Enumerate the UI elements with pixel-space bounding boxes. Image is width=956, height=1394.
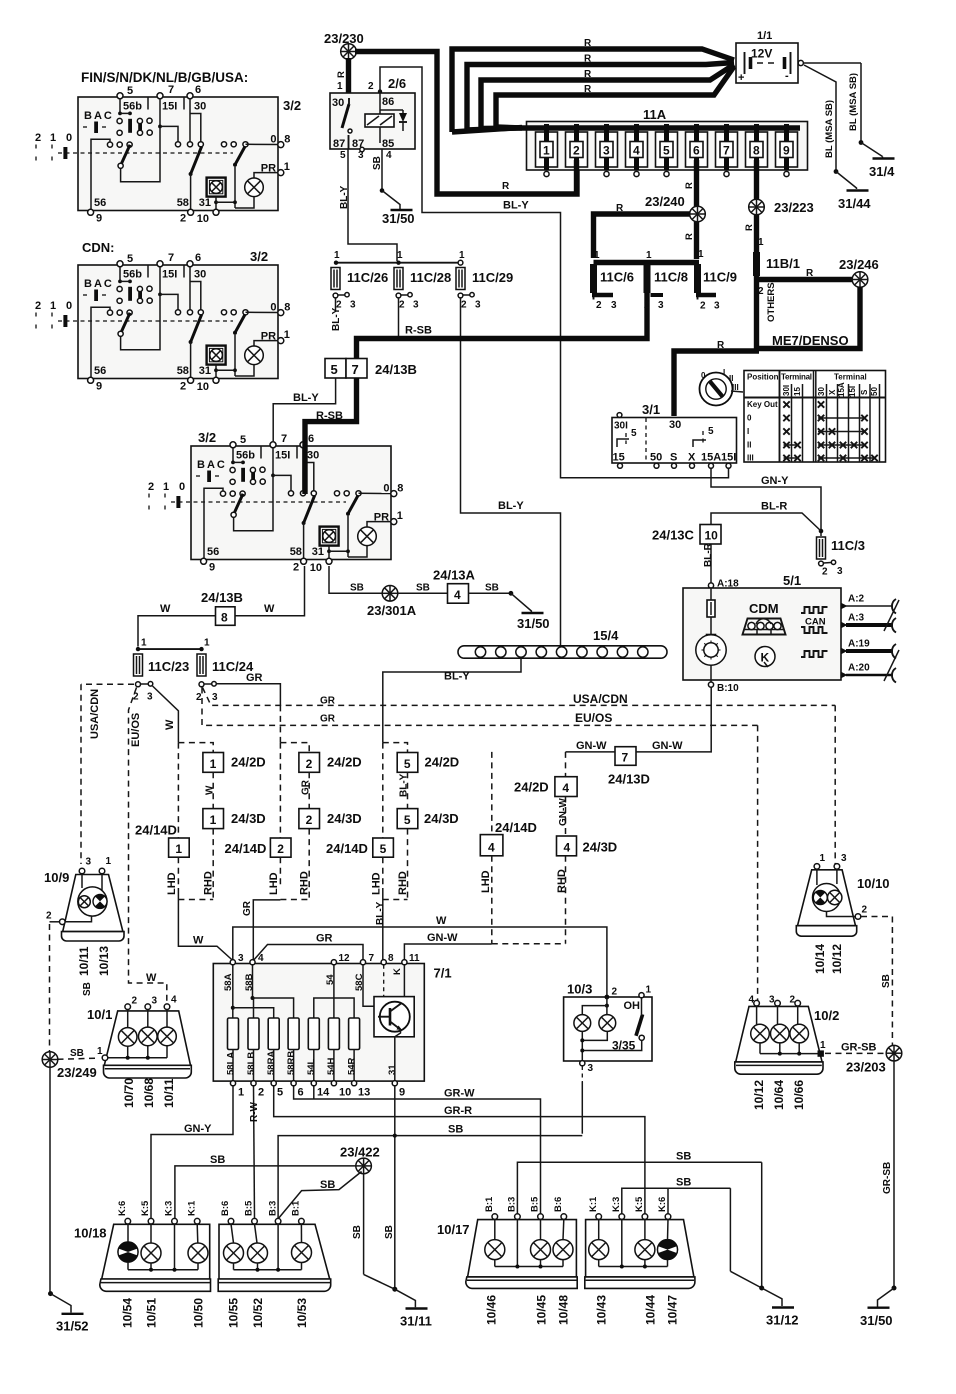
- svg-text:54H: 54H: [326, 1057, 337, 1075]
- svg-text:GN-Y: GN-Y: [761, 475, 789, 487]
- svg-text:23/249: 23/249: [57, 1065, 97, 1080]
- svg-text:R: R: [684, 233, 695, 240]
- svg-text:R: R: [616, 203, 624, 214]
- connector 11C/28: [394, 268, 403, 290]
- svg-text:58B: 58B: [244, 973, 255, 991]
- svg-text:23/422: 23/422: [340, 1145, 380, 1160]
- svg-text:11C/6: 11C/6: [600, 270, 634, 285]
- svg-text:3/2: 3/2: [283, 98, 301, 113]
- wire SB relay 85 to ground: [381, 149, 383, 191]
- connector group 1 (24/2D,24/3D,24/14D): [135, 743, 266, 900]
- headlight switch 3/2 (lower): [148, 430, 403, 574]
- svg-text:10/46: 10/46: [485, 1295, 499, 1325]
- connector 11B/1: [753, 252, 760, 276]
- rail USA/CDN: [203, 688, 836, 706]
- svg-text:GN-Y: GN-Y: [184, 1123, 212, 1135]
- svg-text:15I: 15I: [721, 452, 736, 464]
- svg-text:BL (MSA SB): BL (MSA SB): [824, 100, 835, 158]
- fuse 3: [596, 124, 618, 170]
- svg-text:24/2D: 24/2D: [425, 755, 460, 770]
- connector 24/13B (5|7): [325, 359, 417, 379]
- svg-text:24/2D: 24/2D: [231, 755, 266, 770]
- svg-text:85: 85: [382, 138, 394, 150]
- svg-text:2: 2: [596, 300, 602, 311]
- svg-text:10/64: 10/64: [772, 1080, 786, 1110]
- svg-text:5: 5: [404, 813, 411, 827]
- svg-text:6: 6: [693, 144, 700, 158]
- wire R 11B/1 loop via 23/246 (ME7/DENSO): [754, 276, 759, 350]
- svg-text:24/13A: 24/13A: [433, 568, 476, 583]
- svg-text:7: 7: [723, 144, 730, 158]
- svg-text:30: 30: [332, 97, 344, 109]
- svg-text:2: 2: [790, 995, 796, 1006]
- fuse 7: [716, 124, 738, 170]
- svg-text:3: 3: [152, 996, 158, 1007]
- fuse 1: [536, 124, 558, 170]
- svg-text:10/11: 10/11: [162, 1078, 176, 1108]
- svg-text:CAN: CAN: [805, 617, 826, 628]
- svg-text:2: 2: [700, 301, 706, 312]
- svg-text:10/68: 10/68: [142, 1078, 156, 1108]
- svg-text:3: 3: [769, 995, 775, 1006]
- svg-text:13: 13: [358, 1087, 370, 1099]
- svg-text:4: 4: [488, 841, 495, 855]
- svg-text:K:1: K:1: [588, 1196, 599, 1212]
- svg-text:30: 30: [817, 387, 826, 396]
- connector group 5 (24/2D,24/3D,24/14D): [326, 743, 459, 900]
- wire GN-Y 7/1-1 to 10/18 K:5: [151, 1086, 233, 1219]
- svg-text:1: 1: [210, 813, 217, 827]
- svg-text:1: 1: [698, 249, 704, 260]
- pin-1 thick bus: [594, 260, 700, 265]
- svg-text:5: 5: [277, 1087, 283, 1099]
- USA/CDN left branch to 10/9: [81, 683, 134, 685]
- svg-text:1: 1: [594, 250, 600, 261]
- internal feeds: [232, 965, 234, 1018]
- wire BL-Y relay 86 to ignition 15I: [380, 67, 729, 478]
- svg-text:24/2D: 24/2D: [514, 780, 549, 795]
- svg-text:2: 2: [644, 300, 650, 311]
- connector 24/13A (4): [448, 584, 469, 604]
- svg-text:SB: SB: [82, 982, 93, 996]
- svg-text:12V: 12V: [751, 47, 772, 61]
- ground 31/4: [873, 158, 895, 160]
- svg-text:10/14: 10/14: [813, 944, 827, 974]
- svg-text:3: 3: [714, 301, 720, 312]
- 15/4 strip: [458, 628, 667, 658]
- svg-text:R: R: [584, 69, 592, 80]
- svg-text:2: 2: [277, 842, 284, 856]
- svg-text:31/11: 31/11: [400, 1314, 432, 1329]
- svg-text:B:5: B:5: [244, 1200, 255, 1216]
- svg-text:3: 3: [413, 300, 419, 311]
- svg-text:24/13B: 24/13B: [375, 362, 417, 377]
- svg-text:30: 30: [669, 419, 681, 431]
- svg-text:X: X: [828, 389, 837, 395]
- wire SB 23/422 to ground 31/11: [363, 1174, 365, 1274]
- svg-text:EU/OS: EU/OS: [575, 711, 612, 725]
- group 2 solid GR to 7/1 pin 4: [253, 900, 280, 961]
- svg-text:10/12: 10/12: [752, 1080, 766, 1110]
- svg-text:4: 4: [564, 841, 571, 855]
- svg-text:5/1: 5/1: [783, 573, 801, 588]
- svg-text:LHD: LHD: [166, 872, 178, 895]
- DIM headlamp module icon: [743, 619, 786, 635]
- svg-text:4: 4: [171, 995, 177, 1006]
- svg-text:FIN/S/N/DK/NL/B/GB/USA:: FIN/S/N/DK/NL/B/GB/USA:: [81, 70, 248, 85]
- EU/OS left branch to 10/1: [129, 688, 137, 981]
- svg-text:R: R: [584, 54, 592, 65]
- svg-text:R: R: [584, 84, 592, 95]
- svg-text:K:6: K:6: [117, 1201, 128, 1216]
- wire GN-W 7/1 pin 11: [404, 944, 491, 961]
- svg-text:24/14D: 24/14D: [326, 841, 368, 856]
- fuse 5: [656, 124, 678, 170]
- svg-text:2: 2: [132, 996, 138, 1007]
- svg-text:B:3: B:3: [507, 1197, 518, 1212]
- svg-text:2: 2: [399, 300, 405, 311]
- svg-text:CDN:: CDN:: [82, 240, 115, 255]
- svg-text:11C/26: 11C/26: [347, 270, 388, 285]
- svg-text:4: 4: [633, 144, 640, 158]
- svg-text:3: 3: [588, 1063, 594, 1074]
- svg-text:7: 7: [369, 953, 375, 964]
- wire BL-Y 24/13B-5 to switch terminal 7: [273, 378, 335, 441]
- svg-text:Terminal: Terminal: [781, 373, 812, 382]
- 11C/23 + 11C/24 pin-1 bus: [138, 648, 202, 650]
- splice 23/249: [58, 1058, 95, 1059]
- svg-text:3: 3: [147, 692, 153, 703]
- svg-text:K:3: K:3: [611, 1197, 622, 1212]
- svg-text:III: III: [747, 454, 754, 463]
- svg-text:2: 2: [306, 757, 313, 771]
- wire BL-Y 15/4 to group 5: [383, 659, 521, 743]
- connector 11C/6: [590, 264, 597, 293]
- svg-text:10: 10: [705, 529, 719, 543]
- svg-text:BL-Y: BL-Y: [503, 200, 529, 212]
- svg-text:10/47: 10/47: [666, 1295, 680, 1325]
- ground 31/12: [772, 1307, 794, 1309]
- svg-text:OTHERS: OTHERS: [766, 282, 777, 322]
- svg-text:4: 4: [454, 588, 461, 602]
- svg-text:15A: 15A: [701, 452, 721, 464]
- svg-text:W: W: [436, 915, 447, 927]
- svg-text:2: 2: [573, 144, 580, 158]
- svg-text:R: R: [717, 340, 725, 351]
- svg-text:EU/OS: EU/OS: [130, 713, 142, 747]
- svg-text:4: 4: [386, 150, 392, 161]
- battery minus leads to grounds: [803, 62, 861, 64]
- relay 2/6: [330, 76, 415, 161]
- svg-text:3/35: 3/35: [612, 1039, 636, 1053]
- headlight switch 3/2 (CDN): [35, 240, 290, 393]
- svg-text:10/13: 10/13: [97, 946, 111, 976]
- svg-text:3: 3: [658, 300, 664, 311]
- svg-text:1: 1: [758, 237, 764, 248]
- wire SB 7/1-9 to ground 31/11: [394, 1086, 396, 1289]
- svg-text:10/12: 10/12: [830, 944, 844, 974]
- svg-text:R: R: [806, 268, 814, 279]
- wire harness R loops battery to fuse bus: [452, 49, 734, 132]
- svg-text:1/1: 1/1: [757, 30, 772, 42]
- svg-text:GR: GR: [320, 696, 336, 707]
- svg-text:B:6: B:6: [553, 1197, 564, 1212]
- svg-text:3: 3: [611, 300, 617, 311]
- svg-text:30I: 30I: [782, 385, 791, 396]
- fuse 8: [746, 124, 768, 170]
- wire GR-SB 10/2-1 to 23/203: [825, 1052, 886, 1054]
- connector 11C/3: [817, 537, 826, 559]
- svg-text:10/2: 10/2: [814, 1008, 839, 1023]
- wire GR-R 7/1-5 to 10/17 K:5: [274, 1086, 645, 1214]
- svg-text:B:5: B:5: [530, 1196, 541, 1212]
- svg-text:24/3D: 24/3D: [327, 811, 362, 826]
- svg-text:A:20: A:20: [848, 663, 870, 674]
- svg-text:USA/CDN: USA/CDN: [89, 689, 101, 739]
- svg-text:24/13C: 24/13C: [652, 528, 695, 543]
- wire R thick: 23/230 down to relay 30: [346, 58, 351, 94]
- svg-text:K:1: K:1: [186, 1200, 197, 1216]
- svg-text:8: 8: [388, 953, 394, 964]
- svg-text:11C/28: 11C/28: [410, 270, 451, 285]
- wire SB 10/9-2 to 23/249: [50, 921, 60, 923]
- svg-text:SB: SB: [676, 1177, 691, 1189]
- svg-text:GR-SB: GR-SB: [841, 1042, 877, 1054]
- svg-text:R: R: [502, 181, 510, 192]
- svg-text:1: 1: [543, 144, 550, 158]
- svg-text:1: 1: [646, 985, 652, 996]
- svg-text:2/6: 2/6: [388, 76, 406, 91]
- svg-text:31/50: 31/50: [517, 616, 550, 631]
- svg-text:11C/29: 11C/29: [472, 270, 513, 285]
- svg-text:3: 3: [603, 144, 610, 158]
- svg-text:GR: GR: [246, 672, 263, 684]
- svg-text:SB: SB: [210, 1154, 225, 1166]
- svg-text:CDM: CDM: [749, 601, 779, 616]
- svg-text:31/50: 31/50: [860, 1313, 893, 1328]
- svg-text:24/3D: 24/3D: [424, 811, 459, 826]
- svg-text:11C/9: 11C/9: [703, 270, 737, 285]
- svg-text:23/203: 23/203: [846, 1060, 886, 1075]
- svg-text:RHD: RHD: [203, 871, 215, 895]
- ignition position table: [744, 371, 886, 463]
- svg-text:GN-W: GN-W: [652, 740, 683, 752]
- connector 11C/29: [456, 268, 465, 290]
- splice 23/240: [690, 206, 706, 222]
- svg-text:GR: GR: [320, 714, 336, 725]
- svg-text:3: 3: [837, 566, 843, 577]
- wire SB switch-31 to ground 31/50: [329, 566, 382, 593]
- wire GR 11C/24-3 right: [217, 684, 281, 706]
- wire GR-W 7/1-6 to 10/17 B:5: [294, 1086, 541, 1214]
- fuse box 11A: [522, 107, 808, 170]
- wire W 7/1 pin3 to 10/3 pin 2: [233, 927, 607, 995]
- svg-text:23/223: 23/223: [774, 200, 814, 215]
- connector group 4 (24/2D,24/3D,24/14D): [480, 752, 617, 944]
- svg-text:10/55: 10/55: [227, 1298, 241, 1328]
- svg-text:2: 2: [368, 81, 374, 92]
- svg-text:8: 8: [753, 144, 760, 158]
- svg-text:31/4: 31/4: [869, 164, 895, 179]
- wire W 11C/23-3 to group 1: [153, 686, 179, 743]
- transistor block: [374, 997, 414, 1081]
- svg-text:SB: SB: [372, 156, 383, 170]
- svg-text:5: 5: [708, 426, 714, 437]
- svg-text:58LB: 58LB: [246, 1052, 257, 1075]
- CDM outputs A:2 A:3 A:19 A:20: [842, 594, 900, 683]
- svg-text:K:5: K:5: [634, 1196, 645, 1212]
- svg-text:BL-Y: BL-Y: [375, 901, 386, 925]
- svg-text:BL-Y: BL-Y: [331, 307, 342, 331]
- wire SB 10/17 B:3 to ground 31/12: [517, 1162, 761, 1214]
- svg-text:2: 2: [196, 692, 202, 703]
- svg-text:58RA: 58RA: [266, 1051, 277, 1075]
- svg-text:11C/23: 11C/23: [148, 659, 189, 674]
- svg-text:5: 5: [380, 842, 387, 856]
- connector 11C/23: [134, 654, 143, 676]
- svg-text:1: 1: [646, 250, 652, 261]
- svg-text:24/3D: 24/3D: [583, 840, 618, 855]
- svg-text:R: R: [336, 71, 347, 78]
- ground 31/50 (relay): [391, 209, 413, 211]
- svg-text:4: 4: [749, 995, 755, 1006]
- wire SB 10/18 K:3 to 23/422: [175, 1166, 356, 1219]
- svg-text:58RB: 58RB: [286, 1051, 297, 1075]
- svg-text:10/1: 10/1: [87, 1007, 112, 1022]
- svg-text:GR: GR: [316, 933, 333, 945]
- svg-text:6: 6: [298, 1087, 304, 1099]
- svg-text:58LA: 58LA: [226, 1052, 237, 1075]
- splice 23/301A: [382, 586, 398, 602]
- svg-text:BL-Y: BL-Y: [339, 185, 350, 209]
- svg-text:10/70: 10/70: [122, 1078, 136, 1108]
- svg-text:W: W: [205, 785, 216, 795]
- svg-text:86: 86: [382, 96, 394, 108]
- wire SB 10/17 K:3: [622, 1188, 731, 1214]
- svg-text:3/1: 3/1: [642, 402, 660, 417]
- svg-text:SB: SB: [676, 1151, 691, 1163]
- svg-text:24/2D: 24/2D: [327, 755, 362, 770]
- svg-text:2: 2: [862, 905, 868, 916]
- svg-text:GN-W: GN-W: [427, 932, 458, 944]
- svg-text:B:3: B:3: [267, 1201, 278, 1216]
- ground 31/50 (middle): [522, 612, 544, 614]
- svg-text:SB: SB: [416, 583, 430, 594]
- svg-text:K: K: [392, 968, 403, 975]
- svg-text:1: 1: [337, 81, 343, 92]
- splice 23/422: [356, 1158, 372, 1174]
- ground 31/52: [62, 1313, 84, 1315]
- svg-text:W: W: [193, 935, 204, 947]
- svg-text:R-SB: R-SB: [405, 325, 432, 337]
- svg-text:3: 3: [212, 692, 218, 703]
- svg-text:11B/1: 11B/1: [766, 256, 800, 271]
- svg-text:1: 1: [204, 638, 210, 649]
- wire GN-Y ignition 15A to 11C/3: [711, 469, 821, 537]
- splice 23/223: [749, 199, 765, 215]
- svg-text:3: 3: [238, 953, 244, 964]
- svg-text:9: 9: [783, 144, 790, 158]
- svg-text:1: 1: [397, 250, 403, 261]
- GR solid into rail1: [279, 705, 281, 742]
- svg-text:GR-R: GR-R: [444, 1105, 472, 1117]
- svg-text:BL (MSA SB): BL (MSA SB): [848, 73, 859, 131]
- svg-text:SB: SB: [70, 1048, 84, 1059]
- wire R-SB thick bus: [357, 293, 648, 358]
- wire R fuse 8 down: [754, 160, 759, 252]
- svg-text:1: 1: [820, 1040, 826, 1051]
- svg-text:R: R: [584, 38, 592, 49]
- svg-text:4: 4: [562, 781, 569, 795]
- svg-text:K:3: K:3: [164, 1201, 175, 1216]
- CAN squarewaves: [801, 607, 828, 613]
- fuse 9: [776, 124, 798, 170]
- svg-text:11A: 11A: [643, 107, 667, 122]
- splice 23/230: [341, 44, 357, 60]
- svg-text:2: 2: [461, 300, 467, 311]
- svg-text:0: 0: [747, 414, 752, 423]
- connector 11C/24: [197, 654, 206, 676]
- svg-text:ME7/DENSO: ME7/DENSO: [772, 333, 849, 348]
- group 3 solid BL-Y to 7/1 pin 8: [382, 888, 384, 961]
- wire SB 10/10-2 to 23/203: [861, 916, 892, 918]
- K circle: [755, 647, 775, 667]
- wire R-SB thick 24/13B-7 into switch 30: [305, 378, 357, 494]
- wire SB to ground 31/52: [49, 1067, 51, 1293]
- svg-text:9: 9: [399, 1087, 405, 1099]
- fuse 4: [626, 124, 648, 170]
- svg-text:0: 0: [701, 371, 706, 380]
- svg-text:3: 3: [358, 150, 364, 161]
- svg-text:10/43: 10/43: [595, 1295, 609, 1325]
- svg-text:A:2: A:2: [848, 594, 865, 605]
- svg-text:1: 1: [97, 1046, 103, 1057]
- svg-text:10/11: 10/11: [77, 946, 91, 976]
- svg-text:R-SB: R-SB: [316, 410, 343, 422]
- svg-text:SB: SB: [350, 583, 364, 594]
- connector 11C/8: [644, 264, 651, 293]
- svg-text:54R: 54R: [346, 1057, 357, 1075]
- svg-text:2: 2: [258, 1087, 264, 1099]
- svg-text:15I: 15I: [848, 386, 857, 397]
- svg-text:23/246: 23/246: [839, 257, 879, 272]
- svg-text:2: 2: [306, 813, 313, 827]
- connector 11C/26: [331, 268, 340, 290]
- svg-text:10/48: 10/48: [557, 1295, 571, 1325]
- svg-text:GR: GR: [242, 900, 253, 916]
- wire GR-SB to ground 31/50: [893, 1061, 895, 1288]
- svg-text:GN-W: GN-W: [576, 740, 607, 752]
- svg-text:50: 50: [650, 452, 662, 464]
- connector 11C/9: [694, 264, 701, 293]
- svg-text:R: R: [744, 224, 755, 231]
- svg-text:10/54: 10/54: [121, 1298, 135, 1328]
- svg-text:A:3: A:3: [848, 613, 865, 624]
- ground 31/11: [406, 1308, 428, 1310]
- svg-text:10/17: 10/17: [437, 1222, 470, 1237]
- svg-text:3: 3: [475, 300, 481, 311]
- svg-text:50: 50: [870, 387, 879, 396]
- connector group 2 (24/2D,24/3D,24/14D): [225, 743, 362, 900]
- svg-text:LHD: LHD: [268, 872, 280, 895]
- svg-text:3: 3: [841, 853, 847, 864]
- svg-text:5: 5: [331, 362, 338, 377]
- svg-text:7/1: 7/1: [434, 966, 452, 981]
- svg-text:BL-Y: BL-Y: [498, 500, 524, 512]
- svg-text:B:1: B:1: [484, 1196, 495, 1212]
- wire R to ignition 30: [674, 351, 759, 416]
- svg-text:SB: SB: [881, 974, 892, 988]
